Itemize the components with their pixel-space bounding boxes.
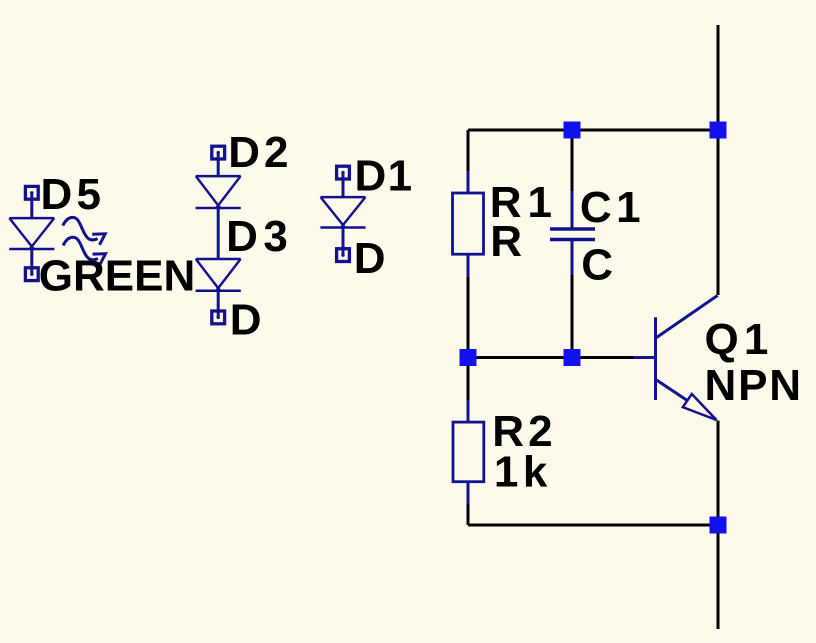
svg-text:D: D bbox=[354, 234, 386, 283]
svg-text:GREEN: GREEN bbox=[39, 252, 195, 301]
svg-text:D: D bbox=[230, 295, 262, 344]
svg-text:R: R bbox=[490, 217, 522, 266]
svg-text:D1: D1 bbox=[355, 151, 414, 200]
svg-text:Q1: Q1 bbox=[705, 315, 774, 364]
svg-text:D2: D2 bbox=[228, 128, 292, 177]
svg-text:D3: D3 bbox=[226, 212, 293, 261]
svg-text:1k: 1k bbox=[494, 447, 552, 496]
svg-text:C: C bbox=[581, 241, 613, 290]
svg-text:D5: D5 bbox=[41, 170, 106, 219]
svg-text:NPN: NPN bbox=[705, 361, 803, 410]
svg-text:C1: C1 bbox=[580, 183, 645, 232]
